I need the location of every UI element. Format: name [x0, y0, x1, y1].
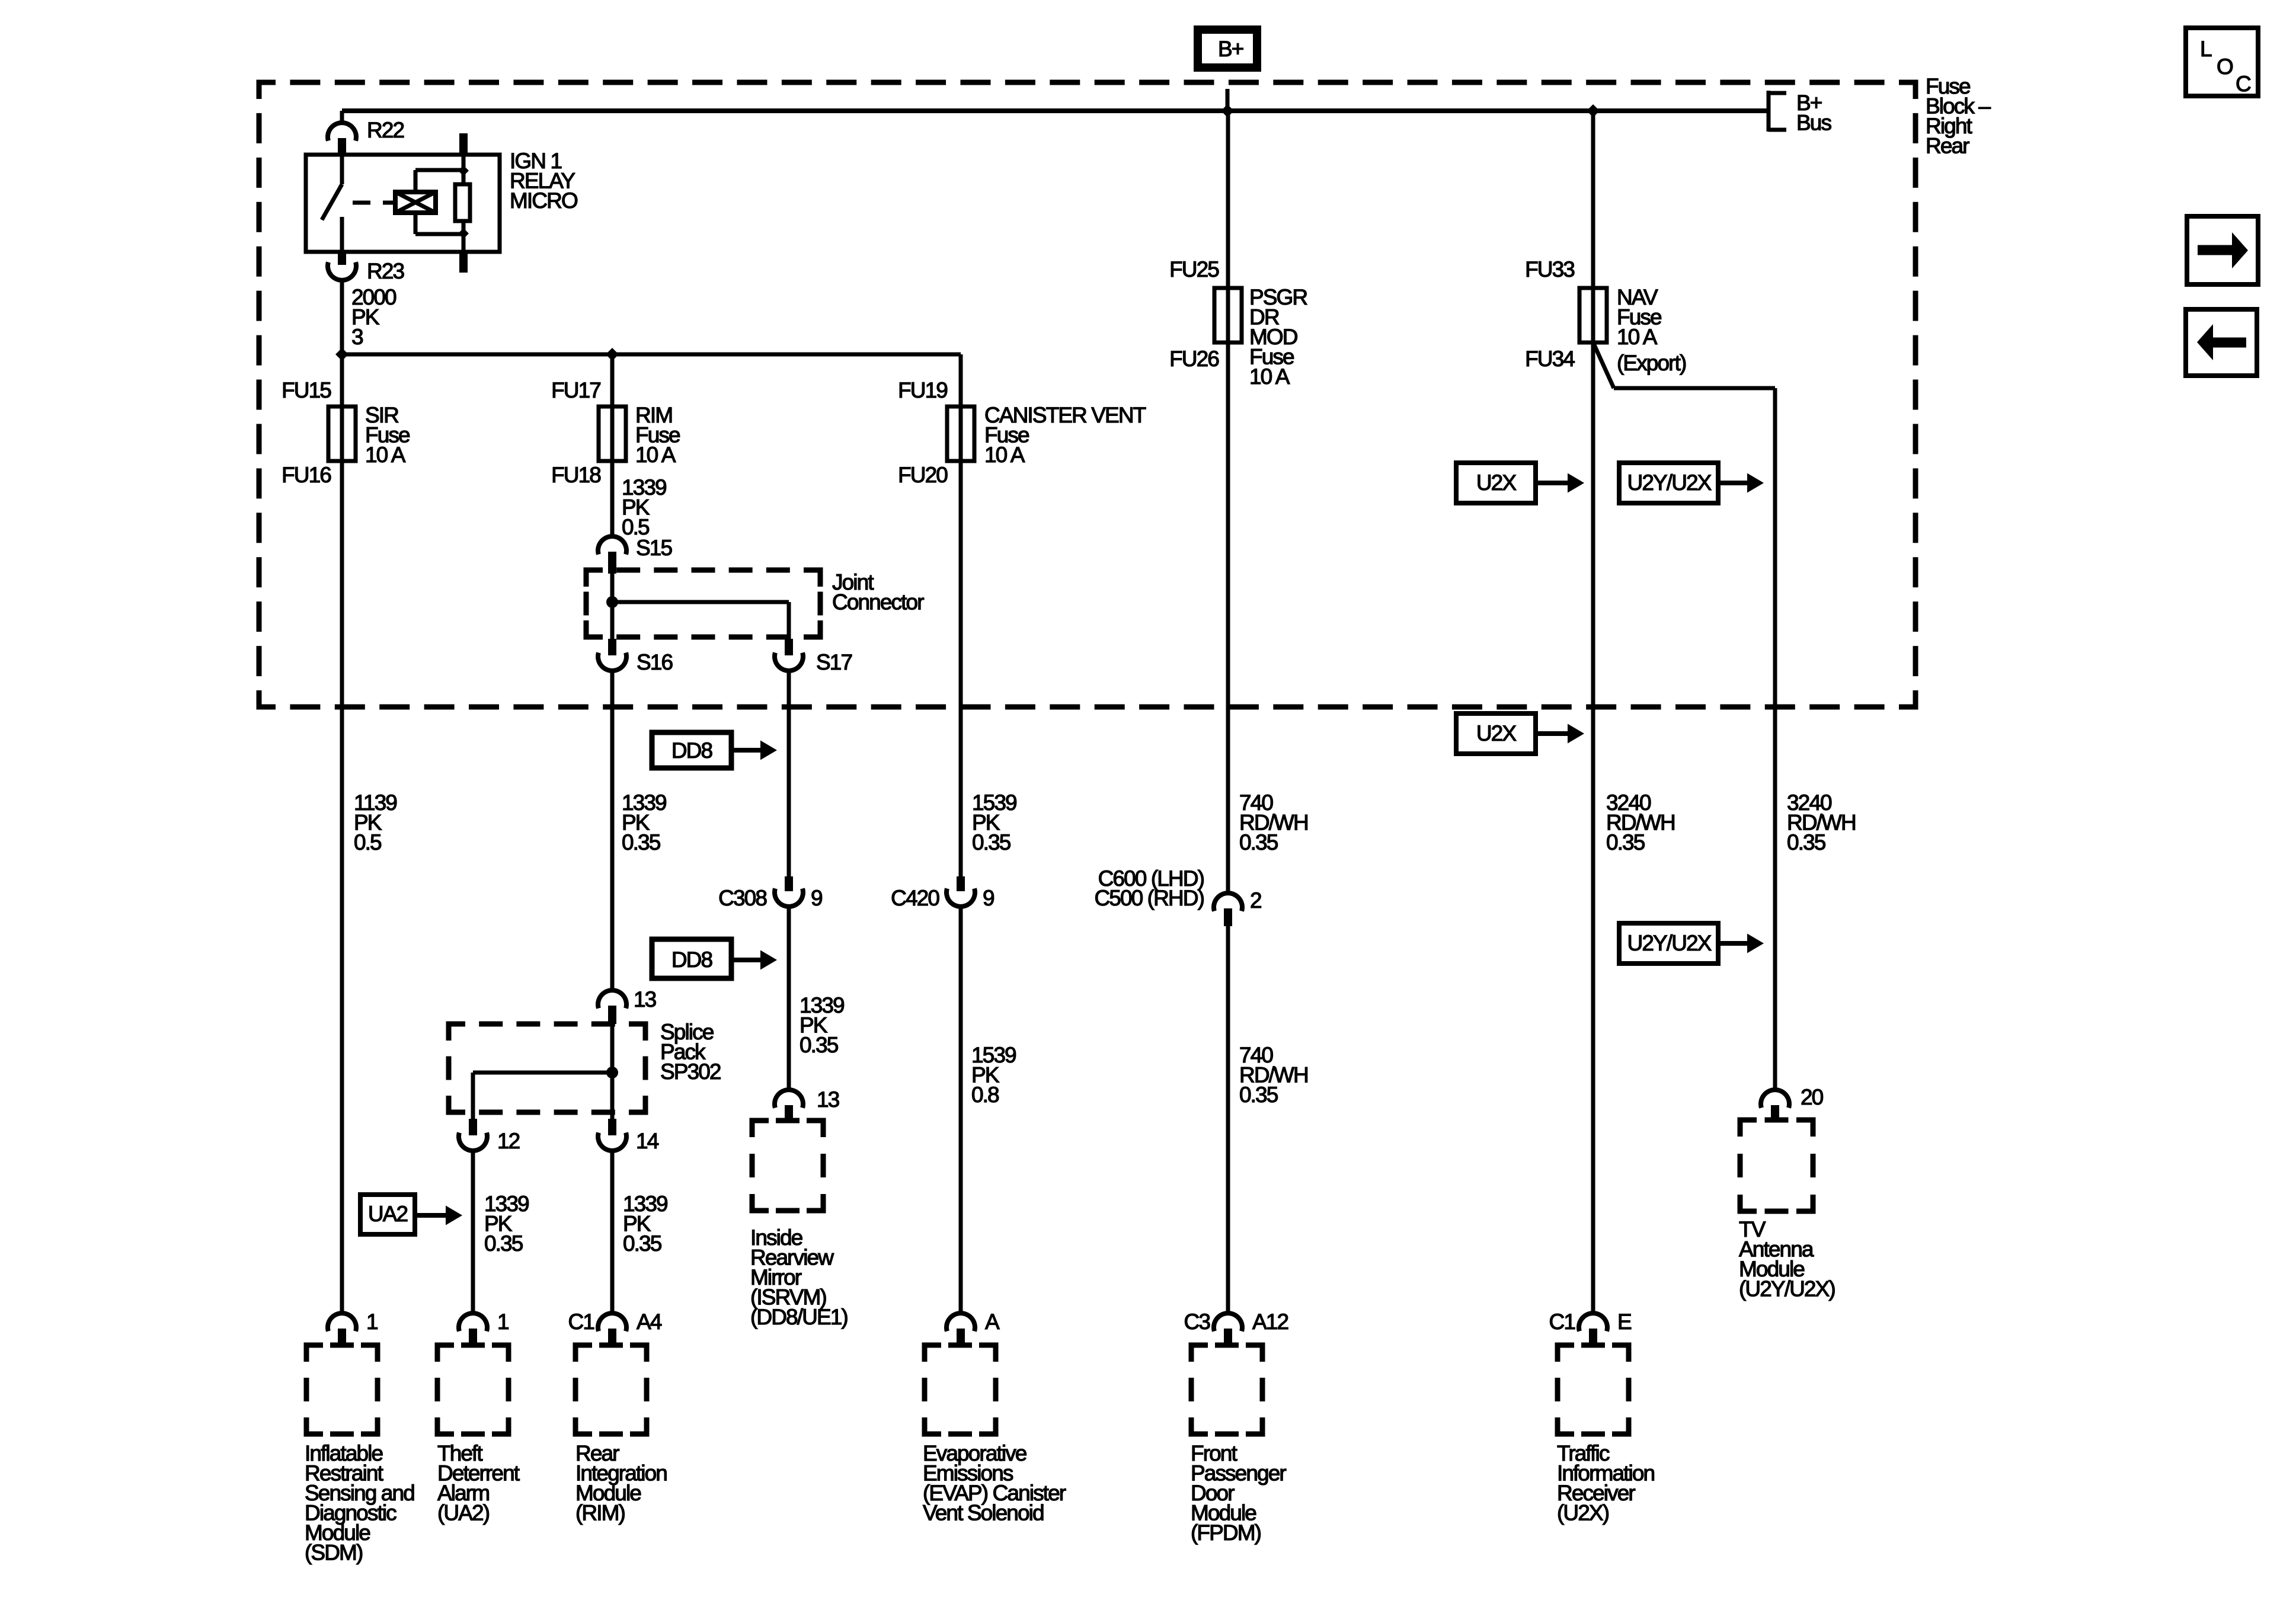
svg-text:C: C [2236, 72, 2251, 96]
svg-text:0.8: 0.8 [971, 1083, 999, 1107]
svg-text:0.5: 0.5 [354, 830, 382, 854]
svg-text:U2Y/U2X: U2Y/U2X [1627, 931, 1712, 955]
svg-text:DD8: DD8 [671, 738, 712, 763]
svg-text:MICRO: MICRO [510, 188, 578, 213]
svg-text:O: O [2217, 55, 2233, 79]
svg-text:10 A: 10 A [635, 443, 676, 467]
svg-text:10 A: 10 A [1617, 325, 1658, 349]
svg-text:C1: C1 [568, 1310, 594, 1334]
svg-text:C308: C308 [718, 886, 766, 910]
svg-text:14: 14 [636, 1129, 659, 1153]
svg-text:0.35: 0.35 [1787, 830, 1826, 854]
svg-text:1: 1 [366, 1310, 378, 1334]
svg-text:C3: C3 [1184, 1310, 1210, 1334]
svg-text:0.35: 0.35 [623, 1231, 662, 1256]
svg-text:10 A: 10 A [365, 443, 406, 467]
svg-text:13: 13 [634, 987, 656, 1012]
svg-text:20: 20 [1801, 1085, 1824, 1109]
svg-text:S17: S17 [816, 650, 852, 674]
svg-text:Bus: Bus [1796, 111, 1831, 135]
svg-text:C500 (RHD): C500 (RHD) [1094, 886, 1204, 910]
svg-text:FU20: FU20 [898, 463, 948, 487]
svg-text:(U2Y/U2X): (U2Y/U2X) [1739, 1277, 1835, 1301]
svg-text:FU19: FU19 [898, 378, 947, 402]
svg-text:E: E [1617, 1310, 1632, 1334]
svg-text:U2X: U2X [1476, 470, 1516, 495]
svg-text:B+: B+ [1218, 37, 1243, 61]
svg-text:FU33: FU33 [1525, 257, 1574, 281]
svg-text:SP302: SP302 [660, 1060, 721, 1084]
svg-text:L: L [2200, 37, 2212, 61]
svg-text:FU34: FU34 [1525, 347, 1575, 371]
svg-text:FU26: FU26 [1169, 347, 1219, 371]
svg-text:0.35: 0.35 [484, 1231, 523, 1256]
svg-text:(SDM): (SDM) [305, 1541, 363, 1565]
svg-text:10 A: 10 A [1249, 364, 1290, 389]
svg-text:2: 2 [1250, 888, 1261, 913]
svg-text:FU16: FU16 [282, 463, 331, 487]
svg-text:0.35: 0.35 [972, 830, 1011, 854]
svg-text:S15: S15 [636, 536, 672, 560]
svg-text:FU18: FU18 [551, 463, 600, 487]
svg-text:1: 1 [497, 1310, 509, 1334]
svg-text:(Export): (Export) [1617, 351, 1686, 375]
svg-text:A4: A4 [637, 1310, 662, 1334]
svg-text:10 A: 10 A [984, 443, 1025, 467]
svg-text:(RIM): (RIM) [575, 1501, 625, 1525]
svg-text:FU15: FU15 [282, 378, 331, 402]
svg-text:Connector: Connector [832, 590, 924, 614]
svg-text:UA2: UA2 [368, 1202, 408, 1226]
svg-text:0.35: 0.35 [800, 1033, 839, 1057]
svg-text:R23: R23 [367, 259, 404, 283]
svg-text:U2Y/U2X: U2Y/U2X [1627, 470, 1712, 495]
svg-text:DD8: DD8 [671, 948, 712, 972]
svg-text:Rear: Rear [1926, 134, 1969, 158]
svg-text:S16: S16 [637, 650, 672, 674]
svg-text:FU17: FU17 [551, 378, 600, 402]
svg-text:FU25: FU25 [1169, 257, 1219, 281]
svg-text:0.35: 0.35 [1239, 830, 1278, 854]
svg-text:R22: R22 [367, 118, 404, 142]
svg-text:0.35: 0.35 [1239, 1083, 1278, 1107]
svg-text:U2X: U2X [1476, 721, 1516, 745]
svg-text:12: 12 [497, 1129, 520, 1153]
svg-text:3: 3 [351, 325, 363, 349]
svg-text:0.35: 0.35 [1606, 830, 1645, 854]
svg-text:(DD8/UE1): (DD8/UE1) [750, 1305, 848, 1329]
svg-text:C420: C420 [891, 886, 939, 910]
svg-text:(UA2): (UA2) [437, 1501, 490, 1525]
svg-text:9: 9 [983, 886, 994, 910]
svg-text:(U2X): (U2X) [1557, 1501, 1609, 1525]
svg-text:(FPDM): (FPDM) [1191, 1521, 1261, 1545]
svg-text:A: A [985, 1310, 1000, 1334]
svg-text:C1: C1 [1549, 1310, 1575, 1334]
svg-text:A12: A12 [1252, 1310, 1288, 1334]
svg-text:0.35: 0.35 [622, 830, 661, 854]
svg-text:13: 13 [817, 1087, 839, 1112]
svg-text:Vent Solenoid: Vent Solenoid [923, 1501, 1044, 1525]
svg-text:9: 9 [811, 886, 822, 910]
